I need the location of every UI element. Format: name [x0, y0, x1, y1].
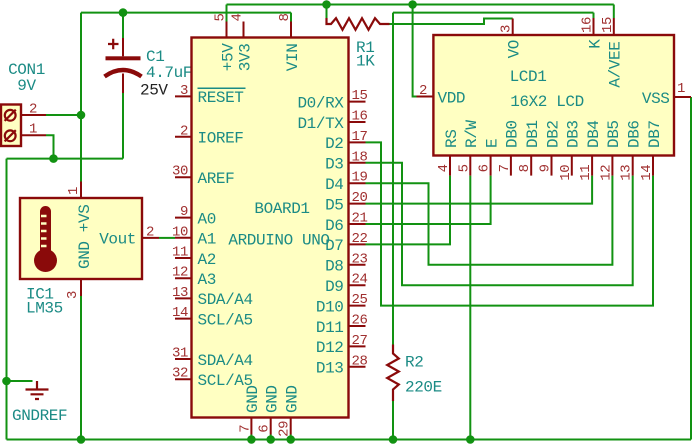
junction CON1 pin2 / 9V drop	[77, 111, 86, 120]
LCD1 pin 11 (DB4) bottom	[578, 120, 603, 180]
svg-text:A/VEE: A/VEE	[607, 42, 625, 88]
wire R1 to LCD1 VO	[390, 19, 513, 25]
svg-text:A2: A2	[198, 251, 216, 269]
svg-text:3: 3	[499, 25, 515, 33]
svg-text:30: 30	[172, 164, 188, 180]
BOARD1 pin 2 (IOREF) left	[175, 123, 244, 147]
svg-text:7: 7	[237, 425, 253, 433]
svg-text:7: 7	[497, 164, 513, 172]
junction C1 top / 9V rail	[119, 8, 128, 17]
svg-text:1: 1	[29, 122, 37, 138]
LM35 thermometer icon	[34, 206, 57, 272]
wire D5 to LCD1 DB4	[366, 176, 593, 204]
svg-text:9V: 9V	[17, 77, 36, 95]
capacitor C1	[105, 38, 142, 93]
display LCD1 body	[433, 35, 674, 156]
svg-text:D1/TX: D1/TX	[297, 115, 344, 133]
BOARD1 pin 32 (SCL/A5) left	[172, 366, 253, 390]
LCD1 pin 10 (DB3) bottom	[558, 120, 583, 180]
svg-text:LM35: LM35	[26, 300, 63, 318]
junction GND pin7 / rail	[247, 435, 256, 444]
svg-text:8: 8	[277, 13, 293, 21]
svg-text:6: 6	[477, 164, 493, 172]
ground GNDREF symbol	[26, 381, 49, 399]
svg-text:DB2: DB2	[544, 120, 562, 148]
svg-text:+5V: +5V	[219, 43, 237, 71]
svg-text:DB0: DB0	[504, 120, 522, 148]
label C1 voltage 25V	[140, 82, 168, 100]
BOARD1 pin 31 (SDA/A4) left	[172, 346, 253, 370]
svg-text:R/W: R/W	[463, 120, 481, 148]
wire R2 bottom to GND rail	[392, 401, 394, 440]
label BOARD1 value ARDUINO UNO	[228, 231, 329, 249]
svg-text:22: 22	[352, 231, 368, 247]
wire +5V pin drop to BOARD1 pin 5	[226, 5, 228, 22]
svg-text:28: 28	[352, 353, 368, 369]
wire CON1 pin 2 to 9V net	[46, 114, 81, 116]
wire LCD1 R/W to GND rail	[469, 176, 471, 440]
svg-text:A3: A3	[198, 271, 216, 289]
BOARD1 pin 4 (3V3) top	[230, 13, 255, 71]
svg-text:19: 19	[352, 170, 368, 186]
wire 9V left drop to LM35 pin 1	[80, 13, 82, 182]
connector CON1 body	[1, 105, 21, 147]
wire C1 top connection	[122, 13, 124, 38]
svg-text:D3: D3	[325, 156, 343, 174]
svg-text:25V: 25V	[140, 82, 168, 100]
junction CON1 pin1 / GND line	[49, 154, 58, 163]
BOARD1 pin 20 (D5) right	[325, 190, 367, 214]
svg-text:ARDUINO UNO: ARDUINO UNO	[228, 231, 329, 249]
wire LM35 pin 3 to GND rail	[80, 296, 82, 440]
wire BOARD1 GND pin 29 drop	[290, 435, 292, 440]
LCD1 pin 9 (DB2) bottom	[538, 120, 563, 175]
BOARD1 pin 26 (D11) right	[316, 313, 368, 337]
wire D3 to LCD1 DB6	[366, 163, 633, 285]
svg-text:11: 11	[172, 245, 188, 261]
wire BOARD1 GND pin 7 drop	[250, 435, 252, 440]
svg-text:D12: D12	[316, 339, 344, 357]
IC1 LM35 body	[20, 198, 142, 279]
svg-text:17: 17	[352, 129, 368, 145]
svg-text:3: 3	[180, 83, 188, 99]
svg-text:A0: A0	[198, 210, 216, 228]
svg-text:GND: GND	[244, 385, 262, 413]
svg-text:AREF: AREF	[198, 170, 235, 188]
LM35 pin 1 (+VS top)	[66, 182, 82, 199]
BOARD1 pin 9 (A0) left	[175, 204, 216, 228]
svg-text:D6: D6	[325, 217, 343, 235]
LM35 pin 3 (GND bottom)	[65, 279, 81, 299]
wire 9V drop to BOARD1 VIN	[290, 13, 292, 22]
svg-text:D9: D9	[325, 278, 343, 296]
wire LCD1 K stub link	[593, 13, 595, 18]
svg-text:16: 16	[580, 17, 596, 33]
svg-text:BOARD1: BOARD1	[254, 200, 309, 218]
svg-text:D8: D8	[325, 258, 343, 276]
wire BOARD1 GND pin 6 drop	[270, 435, 272, 440]
svg-text:DB1: DB1	[524, 120, 542, 148]
svg-text:D2: D2	[325, 135, 343, 153]
svg-text:23: 23	[352, 251, 368, 267]
svg-text:1K: 1K	[356, 53, 375, 71]
svg-text:IOREF: IOREF	[198, 130, 244, 148]
svg-text:13: 13	[619, 165, 635, 181]
LCD1 pin 8 (DB1) bottom	[517, 120, 542, 175]
label LCD1 value 16X2 LCD	[510, 93, 584, 111]
LCD1 pin 14 (DB7) bottom	[639, 120, 664, 180]
BOARD1 pin 25 (D10) right	[316, 292, 368, 316]
label CON1 value 9V	[17, 77, 36, 95]
svg-text:8: 8	[517, 164, 533, 172]
LCD1 pin 7 (DB0) bottom	[497, 120, 522, 175]
BOARD1 pin 15 (D0/RX) right	[297, 88, 367, 112]
svg-text:16X2 LCD: 16X2 LCD	[510, 93, 584, 111]
label IC1 value LM35	[26, 300, 63, 318]
label R1 value 1K	[356, 53, 375, 71]
svg-text:DB4: DB4	[585, 120, 603, 148]
resistor R1	[327, 18, 390, 30]
svg-text:R2: R2	[405, 354, 423, 372]
BOARD1 pin 21 (D6) right	[325, 211, 367, 235]
svg-text:VIN: VIN	[284, 44, 302, 72]
svg-text:D11: D11	[316, 319, 344, 337]
junction R/W / GND rail	[466, 435, 475, 444]
svg-text:10: 10	[558, 165, 574, 181]
svg-text:VDD: VDD	[438, 89, 466, 107]
junction GND pin29 / rail	[286, 435, 295, 444]
junction GNDREF / left GND wire	[2, 377, 11, 386]
BOARD1 pin 29 (GND) bottom	[277, 385, 302, 437]
svg-text:16: 16	[352, 109, 368, 125]
BOARD1 pin 8 (VIN) top	[277, 13, 302, 71]
svg-text:18: 18	[352, 149, 368, 165]
svg-text:13: 13	[172, 285, 188, 301]
LCD1 pin 1 (VSS) right	[642, 81, 691, 108]
svg-text:GND: GND	[264, 385, 282, 413]
svg-text:31: 31	[172, 346, 188, 362]
svg-text:21: 21	[352, 211, 368, 227]
label R2 value 220E	[405, 379, 442, 397]
BOARD1 pin 16 (D1/TX) right	[297, 109, 367, 133]
label GNDREF	[12, 407, 67, 425]
wire K rail down to R2	[392, 13, 394, 345]
svg-text:1: 1	[677, 81, 685, 97]
svg-text:GND +VS: GND +VS	[76, 205, 94, 269]
label C1 value 4.7uF	[146, 64, 192, 82]
wire +5V drop to LCD1 A/VEE	[613, 5, 615, 19]
BOARD1 pin 27 (D12) right	[316, 333, 368, 357]
BOARD1 pin 23 (D8) right	[325, 251, 367, 275]
svg-text:14: 14	[639, 165, 655, 181]
BOARD1 pin 12 (A3) left	[172, 265, 216, 289]
svg-text:D7: D7	[325, 237, 343, 255]
svg-text:5: 5	[456, 164, 472, 172]
BOARD1 pin 5 (+5V) top	[213, 13, 238, 71]
board BOARD1 body	[192, 38, 349, 418]
svg-text:4: 4	[436, 164, 452, 172]
svg-text:K: K	[586, 39, 604, 49]
svg-text:20: 20	[352, 190, 368, 206]
svg-text:11: 11	[578, 165, 594, 181]
svg-text:SDA/A4: SDA/A4	[198, 352, 253, 370]
svg-text:6: 6	[257, 425, 273, 433]
BOARD1 pin 13 (SDA/A4) left	[172, 285, 253, 309]
wire D7 to LCD1 RS	[366, 176, 451, 245]
LM35 pin 1 name GND +VS	[76, 205, 94, 269]
svg-text:32: 32	[172, 366, 188, 382]
wire +5V drop to R1	[326, 5, 328, 19]
wire CON1 pin 1 to GND net	[46, 135, 54, 158]
svg-text:DB6: DB6	[626, 120, 644, 148]
label IC1 reference	[26, 286, 54, 304]
svg-text:26: 26	[352, 313, 368, 329]
svg-text:27: 27	[352, 333, 368, 349]
wire +5V drop to LCD1 VDD	[413, 5, 417, 97]
svg-text:GND: GND	[284, 385, 302, 413]
BOARD1 pin 19 (D4) right	[325, 170, 367, 194]
svg-text:2: 2	[146, 224, 154, 240]
svg-text:29: 29	[277, 421, 293, 437]
svg-text:3V3: 3V3	[236, 44, 254, 72]
LCD1 pin 3 (VO) top	[499, 19, 524, 59]
svg-text:12: 12	[598, 165, 614, 181]
resistor R2	[387, 345, 399, 402]
BOARD1 pin 22 (D7) right	[325, 231, 367, 255]
svg-text:3: 3	[65, 291, 81, 299]
svg-text:VO: VO	[506, 40, 524, 58]
svg-text:4: 4	[230, 13, 246, 21]
svg-text:2: 2	[419, 83, 427, 99]
wire GND bottom rail	[7, 439, 692, 441]
LCD1 pin 2 (VDD) left	[417, 83, 466, 107]
junction +5V rail / VDD drop	[408, 0, 417, 9]
svg-text:24: 24	[352, 272, 368, 288]
svg-text:D10: D10	[316, 298, 344, 316]
svg-text:14: 14	[172, 305, 188, 321]
C1 plus mark	[108, 39, 119, 49]
junction LM35 pin3 / GND rail	[77, 435, 86, 444]
svg-text:D13: D13	[316, 360, 344, 378]
svg-text:1: 1	[66, 187, 82, 195]
BOARD1 pin 28 (D13) right	[316, 353, 368, 377]
svg-text:RESET: RESET	[198, 89, 244, 107]
junction +5V rail / R1	[322, 0, 331, 9]
svg-text:A1: A1	[198, 231, 216, 249]
svg-text:DB5: DB5	[605, 120, 623, 148]
LM35 pin 2 name Vout	[99, 231, 136, 249]
BOARD1 pin 24 (D9) right	[325, 272, 367, 296]
label R1 reference	[356, 39, 374, 57]
LM35 pin 2 (Vout)	[142, 224, 159, 240]
BOARD1 pin 14 (SCL/A5) left	[172, 305, 253, 329]
junction GND pin6 / rail	[266, 435, 275, 444]
svg-text:15: 15	[600, 17, 616, 33]
wire LCD1 K rail	[393, 12, 594, 14]
LCD1 pin 6 (E) bottom	[477, 139, 502, 176]
svg-text:RS: RS	[443, 130, 461, 148]
BOARD1 pin 17 (D2) right	[325, 129, 367, 153]
LCD1 pin 13 (DB6) bottom	[619, 120, 644, 180]
wire D2 to LCD1 DB7	[366, 142, 654, 305]
CON1 pin 2	[21, 102, 46, 118]
LCD1 pin 15 (A/VEE) top	[600, 17, 625, 88]
svg-text:2: 2	[180, 123, 188, 139]
svg-text:9: 9	[538, 164, 554, 172]
svg-text:GNDREF: GNDREF	[12, 407, 67, 425]
svg-text:E: E	[483, 139, 501, 148]
svg-text:220E: 220E	[405, 379, 442, 397]
LCD1 pin 16 (K) top	[580, 17, 605, 49]
svg-text:D0/RX: D0/RX	[297, 94, 344, 112]
svg-text:Vout: Vout	[99, 231, 136, 249]
svg-text:DB7: DB7	[646, 120, 664, 148]
wire 9V rail	[81, 12, 291, 14]
svg-text:10: 10	[172, 224, 188, 240]
CON1 pin 1	[21, 122, 46, 138]
svg-text:2: 2	[29, 102, 37, 118]
svg-text:LCD1: LCD1	[510, 68, 547, 86]
LCD1 pin 5 (R/W) bottom	[456, 120, 481, 176]
label CON1 reference	[8, 61, 45, 79]
BOARD1 pin 11 (A2) left	[172, 245, 216, 269]
BOARD1 pin 30 (AREF) left	[172, 164, 234, 188]
wire LCD1 VSS to GND rail	[690, 97, 692, 440]
wire D4 to LCD1 DB5	[366, 176, 613, 265]
svg-text:D4: D4	[325, 176, 343, 194]
label C1 reference	[146, 48, 164, 66]
wire GND horizontal segment	[7, 158, 124, 160]
svg-text:VSS: VSS	[642, 90, 670, 108]
svg-text:15: 15	[352, 88, 368, 104]
wire +5V rail (top)	[227, 4, 614, 6]
BOARD1 pin 18 (D3) right	[325, 149, 367, 173]
svg-text:9: 9	[180, 204, 188, 220]
svg-text:SCL/A5: SCL/A5	[198, 311, 253, 329]
svg-text:4.7uF: 4.7uF	[146, 64, 192, 82]
wire GND left vertical	[6, 159, 8, 440]
label R2 reference	[405, 354, 423, 372]
svg-text:D5: D5	[325, 196, 343, 214]
svg-text:5: 5	[213, 13, 229, 21]
LCD1 pin 4 (RS) bottom	[436, 130, 461, 176]
junction R2 / GND rail	[389, 435, 398, 444]
wire GNDREF tap	[7, 380, 33, 382]
svg-text:SDA/A4: SDA/A4	[198, 291, 253, 309]
BOARD1 pin 6 (GND) bottom	[257, 385, 282, 434]
BOARD1 pin 3 (RESET) left	[175, 83, 246, 107]
BOARD1 pin 7 (GND) bottom	[237, 385, 262, 434]
svg-text:12: 12	[172, 265, 188, 281]
label BOARD1 reference	[254, 200, 309, 218]
svg-text:DB3: DB3	[565, 120, 583, 148]
label LCD1 reference	[510, 68, 547, 86]
svg-text:25: 25	[352, 292, 368, 308]
wire C1 bottom to GND	[122, 93, 124, 159]
LCD1 pin 12 (DB5) bottom	[598, 120, 623, 180]
wire LM35 Vout to BOARD1 A1	[159, 237, 175, 239]
BOARD1 pin 10 (A1) left	[172, 224, 216, 248]
wire D6 to LCD1 E	[366, 176, 491, 224]
